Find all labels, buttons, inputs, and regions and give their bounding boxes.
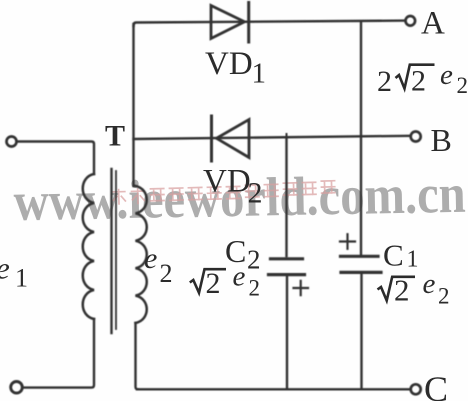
secondary coil winding [136, 186, 147, 323]
svg-text:B: B [431, 122, 452, 158]
diode VD1 triangle [211, 6, 245, 39]
svg-text:2: 2 [249, 276, 261, 301]
svg-text:2: 2 [377, 65, 392, 98]
wire C1 lower lead [360, 274, 362, 389]
wire bottom C line [137, 388, 410, 390]
capacitor C2 top plate [271, 257, 303, 260]
plus sign C1 [340, 234, 355, 249]
svg-text:e: e [423, 268, 436, 300]
terminal input top-left [7, 137, 17, 147]
watermark red chinese characters [112, 181, 336, 205]
svg-text:e: e [440, 59, 453, 91]
terminal input bottom-left [11, 382, 23, 394]
svg-text:2: 2 [411, 65, 426, 98]
svg-text:1: 1 [252, 58, 267, 90]
svg-text:2: 2 [160, 259, 173, 288]
transformer core line 2 [115, 171, 117, 329]
radical of 2sqrt2e2 [396, 65, 435, 89]
wire input top to primary [18, 142, 95, 175]
terminal B [411, 132, 421, 142]
terminal C [411, 384, 421, 394]
wire C2 lower lead [286, 276, 288, 389]
svg-text:e: e [0, 251, 10, 286]
capacitor C1 bottom plate [341, 271, 381, 274]
diode VD1 cathode bar [247, 3, 250, 43]
label sqrt2 e2 for C2 [190, 269, 226, 293]
svg-text:VD: VD [203, 164, 251, 200]
diode VD2 triangle [217, 120, 250, 158]
svg-text:T: T [105, 120, 125, 153]
svg-text:C: C [424, 369, 448, 401]
node junction stub C2 top [286, 134, 288, 139]
wire C1 upper lead from A line [360, 22, 362, 256]
capacitor C1 top plate [341, 255, 379, 258]
wire secondary top lead [132, 24, 134, 186]
svg-text:2: 2 [438, 284, 450, 309]
transformer core line 1 [110, 169, 112, 333]
wire B line [134, 136, 411, 139]
wire top A line [134, 21, 406, 26]
capacitor C2 bottom plate [269, 273, 305, 276]
svg-text:2: 2 [457, 73, 468, 98]
svg-text:2: 2 [206, 267, 221, 300]
plus sign C2 [294, 281, 309, 295]
label sqrt2 e2 for C1 [378, 277, 416, 301]
svg-text:C: C [383, 238, 404, 273]
watermark gray text www.ieeworld.com.cn [13, 163, 466, 232]
primary coil winding [83, 174, 94, 319]
terminal A [406, 16, 416, 26]
svg-text:1: 1 [407, 247, 419, 273]
svg-text:VD: VD [205, 46, 253, 82]
svg-text:e: e [144, 242, 157, 275]
svg-text:2: 2 [394, 273, 410, 308]
svg-text:e: e [233, 261, 246, 293]
wire C2 upper lead [285, 138, 287, 256]
svg-text:2: 2 [247, 245, 261, 275]
diode VD2 cathode bar [210, 116, 213, 161]
wire secondary bottom lead [136, 323, 139, 389]
svg-text:1: 1 [15, 264, 28, 293]
wire primary bottom lead [24, 319, 94, 388]
svg-text:2: 2 [248, 177, 263, 210]
svg-text:A: A [421, 6, 445, 42]
